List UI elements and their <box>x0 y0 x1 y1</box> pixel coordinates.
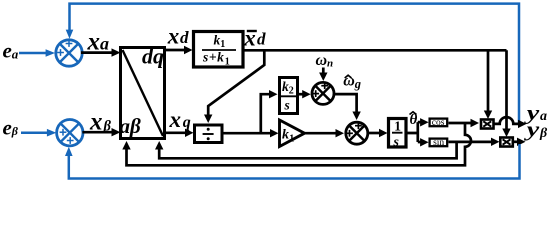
svg-text:dq: dq <box>142 44 164 69</box>
wire: x_β from S2 to αβ block <box>82 131 112 134</box>
integrator block 1/s <box>389 119 407 150</box>
wire: blue bottom feedback from y_β to summer S2 <box>69 144 520 179</box>
wire: sin output to multiplier M2 <box>449 141 492 144</box>
svg-text:g: g <box>354 77 361 91</box>
svg-text:1: 1 <box>225 56 230 67</box>
node label x̄_d <box>243 25 266 50</box>
transformation block dq/αβ <box>121 48 165 139</box>
summing junction S4 <box>346 122 368 144</box>
wire: e_a input arrow <box>19 52 47 55</box>
svg-text:d: d <box>257 30 266 49</box>
svg-text:1: 1 <box>394 119 401 134</box>
svg-text:k: k <box>282 128 289 143</box>
svg-text:a: a <box>540 109 547 124</box>
input label e_β <box>3 116 19 140</box>
wire: k1 to summer S4 <box>305 132 337 135</box>
wire: x_a from S1 to dq block <box>81 51 112 54</box>
svg-text:e: e <box>3 116 12 140</box>
output label y_a <box>524 102 547 124</box>
summing junction S3 <box>312 82 334 104</box>
svg-text:x: x <box>243 25 256 50</box>
wire: cos feedback down to αβ (hop over sin line) <box>127 123 472 165</box>
node label x_q <box>169 107 191 132</box>
svg-text:s+k: s+k <box>202 50 225 65</box>
svg-text:cos: cos <box>432 118 445 128</box>
wire: ω_n arrow into S3 <box>322 68 325 74</box>
summing junction S1 (top, blue) <box>56 40 82 66</box>
arrowhead into S1 top <box>66 30 74 39</box>
svg-text:s: s <box>284 98 290 113</box>
wire: 1/s output tee to cos and sin <box>405 122 421 142</box>
wire: divider output to gain k1 <box>222 132 271 135</box>
svg-text:1: 1 <box>220 39 225 50</box>
wire: x_q from αβ to divider <box>165 131 186 134</box>
svg-text:y: y <box>524 119 539 141</box>
svg-text:sin: sin <box>433 138 444 148</box>
wire: x_d from dq to filter block <box>165 49 185 52</box>
wire: cos output to multiplier M1 <box>449 122 472 125</box>
svg-text:a: a <box>100 34 109 54</box>
wire: M1 output to y_a (hop over M2 branch) <box>494 117 519 124</box>
wire: sin feedback down to αβ <box>159 142 456 158</box>
filter block k1/(s+k1) <box>194 32 244 68</box>
gain triangle k1 <box>280 120 305 147</box>
svg-text:aβ: aβ <box>120 114 142 138</box>
summing junction S2 (bottom, blue) <box>57 120 83 146</box>
svg-text:x: x <box>169 107 182 132</box>
svg-text:1: 1 <box>289 134 294 145</box>
wire: branch up to k2/s block <box>261 94 270 133</box>
node label x_a <box>87 29 110 56</box>
svg-text:d: d <box>180 28 189 47</box>
svg-text:ω: ω <box>316 52 328 69</box>
node label θ̂ <box>410 112 418 128</box>
multiplier M1 <box>481 120 494 129</box>
svg-text:x: x <box>167 24 180 49</box>
wire: k2/s to summer S3 <box>298 93 303 96</box>
wire: x̄_d main horizontal <box>243 49 507 52</box>
block k2/s <box>280 78 298 114</box>
svg-text:β: β <box>539 126 548 141</box>
svg-text:2: 2 <box>289 85 294 96</box>
svg-text:n: n <box>327 58 333 70</box>
divider block ÷ <box>195 125 223 143</box>
svg-text:s: s <box>393 135 400 150</box>
wire: S4 to integrator 1/s <box>368 132 379 135</box>
wire: M2 output to y_β <box>513 140 518 143</box>
output label y_β <box>524 119 548 141</box>
label ω_n <box>316 52 334 70</box>
svg-text:β: β <box>11 124 19 138</box>
wire: x̄_d branch down to multiplier M1 <box>487 50 490 111</box>
label ω̂_g <box>343 73 361 91</box>
node label x_β <box>89 108 112 135</box>
wire: e_β input arrow <box>21 131 48 134</box>
wire: S3 output to summer S4 <box>334 94 356 112</box>
multiplier M2 <box>500 138 513 147</box>
svg-text:q: q <box>183 114 191 131</box>
wire: blue top feedback from y_a to summer S1 <box>70 4 520 123</box>
wire: x̄_d branch down to multiplier M2 <box>505 50 508 129</box>
block sin <box>430 138 448 148</box>
input label e_a <box>3 39 19 63</box>
svg-text:e: e <box>3 39 12 63</box>
node label x_d <box>167 24 189 49</box>
block cos <box>430 118 448 128</box>
wire: x̄_d tap down-diagonal to divider <box>208 50 264 115</box>
svg-text:a: a <box>12 46 19 61</box>
